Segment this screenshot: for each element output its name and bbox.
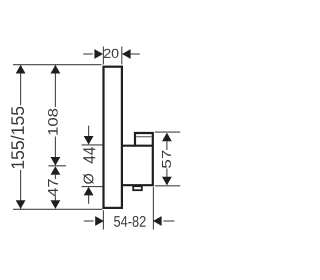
handle sleeve top edge bbox=[122, 145, 153, 147]
knob outline bbox=[122, 133, 154, 185]
dim D44 text bbox=[83, 147, 95, 163]
dim 155/155 line bbox=[20, 65, 22, 105]
center axis tick bbox=[49, 165, 67, 167]
dim 108 arrows bbox=[51, 65, 61, 74]
dim 57 text bbox=[162, 151, 171, 169]
dim 47 line bbox=[54, 175, 56, 179]
dim 20 tails bbox=[83, 53, 93, 55]
plate (escutcheon side view) bbox=[104, 67, 122, 208]
dim 155/155 arrows bbox=[16, 65, 26, 74]
dim 108 text bbox=[48, 109, 58, 135]
dim D44 tails bbox=[88, 126, 90, 138]
dim 108 line bbox=[54, 65, 56, 107]
dim 54-82 text bbox=[114, 216, 146, 227]
dim 54-82 tails bbox=[84, 220, 94, 222]
dim 47 arrows bbox=[51, 166, 61, 175]
dim 57 arrows bbox=[162, 133, 172, 142]
dim D44 extension lines bbox=[82, 144, 103, 146]
dim 57 extension lines bbox=[155, 131, 181, 133]
top reference line bbox=[13, 64, 102, 66]
dim 20 arrows bbox=[94, 49, 103, 59]
dim 20 extension lines bbox=[102, 47, 104, 65]
dim 54-82 arrows bbox=[95, 216, 104, 226]
knob chamfer inner line bbox=[136, 136, 151, 138]
tab under knob bbox=[133, 186, 142, 190]
dim 155/155 text bbox=[11, 107, 24, 169]
bottom reference line bbox=[13, 208, 102, 210]
dim 20 text bbox=[104, 49, 119, 58]
dim 54-82 extension lines bbox=[102, 210, 104, 229]
dim 57 line bbox=[166, 141, 168, 150]
dim 47 text bbox=[48, 179, 58, 196]
dim D44 arrows bbox=[84, 136, 94, 145]
